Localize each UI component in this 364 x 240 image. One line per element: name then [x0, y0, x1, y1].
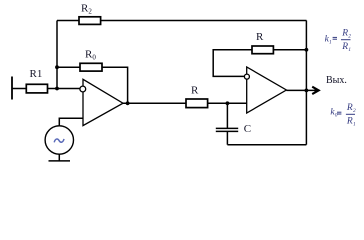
capacitor C top stub	[226, 103, 228, 128]
wire U2 output	[286, 89, 316, 91]
node junction R1	[55, 87, 59, 91]
wire top horizontal through R2	[57, 20, 307, 22]
wire U1 output to series R	[123, 102, 187, 104]
svg-text:R0: R0	[85, 49, 96, 62]
resistor R1	[26, 84, 47, 93]
wire bottom feedback	[227, 144, 306, 146]
capacitor bottom stub	[226, 131, 228, 144]
svg-text:R: R	[346, 103, 353, 113]
svg-text:C: C	[244, 123, 251, 135]
sine source G1	[45, 126, 73, 154]
wire non-inverting input from source	[59, 118, 83, 126]
wire series R to U2 input	[208, 102, 247, 104]
resistor R0	[80, 63, 102, 71]
svg-text:2: 2	[348, 33, 351, 39]
U1 inverting input bubble	[80, 86, 86, 92]
svg-text:R: R	[341, 29, 348, 39]
ground	[49, 160, 71, 162]
svg-text:R: R	[256, 31, 264, 43]
op-amp U1	[83, 79, 123, 125]
resistor R feedback	[252, 46, 273, 54]
input terminal	[11, 77, 13, 100]
svg-text:R: R	[346, 117, 353, 127]
capacitor C	[216, 127, 238, 129]
svg-text:1: 1	[353, 121, 356, 127]
wire R0 horizontal	[57, 66, 128, 68]
U2 inverting input bubble	[244, 74, 249, 79]
formula k0 = R/R1	[330, 103, 356, 127]
node capacitor junction	[226, 101, 230, 105]
resistor R series	[186, 99, 208, 108]
sine symbol	[54, 139, 64, 142]
svg-text:R2: R2	[81, 3, 92, 16]
svg-text:Вых.: Вых.	[326, 75, 347, 86]
op-amp U2	[247, 67, 287, 113]
svg-text:R1: R1	[30, 68, 43, 80]
svg-text:R: R	[191, 85, 199, 97]
formula k1 = R2/R1	[325, 29, 352, 53]
svg-text:1: 1	[329, 39, 332, 45]
svg-text:1: 1	[348, 47, 351, 53]
node output junction	[305, 89, 309, 93]
node junction R0 branch	[55, 65, 59, 69]
wire input to inverting node	[12, 88, 80, 90]
node feedback junction	[305, 48, 309, 52]
ground stub	[58, 154, 60, 161]
wire vertical from top wire down to R1 node	[56, 21, 58, 89]
output arrow	[312, 87, 319, 94]
node U1 output junction	[126, 101, 130, 105]
wire feedback R to output net	[273, 49, 306, 51]
wire R0 drop to op-amp output	[127, 67, 129, 104]
svg-text:2: 2	[353, 108, 356, 114]
wire feedback loop to R	[213, 50, 252, 77]
wire right vertical (output net)	[305, 21, 307, 145]
svg-text:R: R	[341, 42, 348, 52]
resistor R2	[79, 17, 101, 25]
svg-text:0: 0	[335, 113, 338, 119]
